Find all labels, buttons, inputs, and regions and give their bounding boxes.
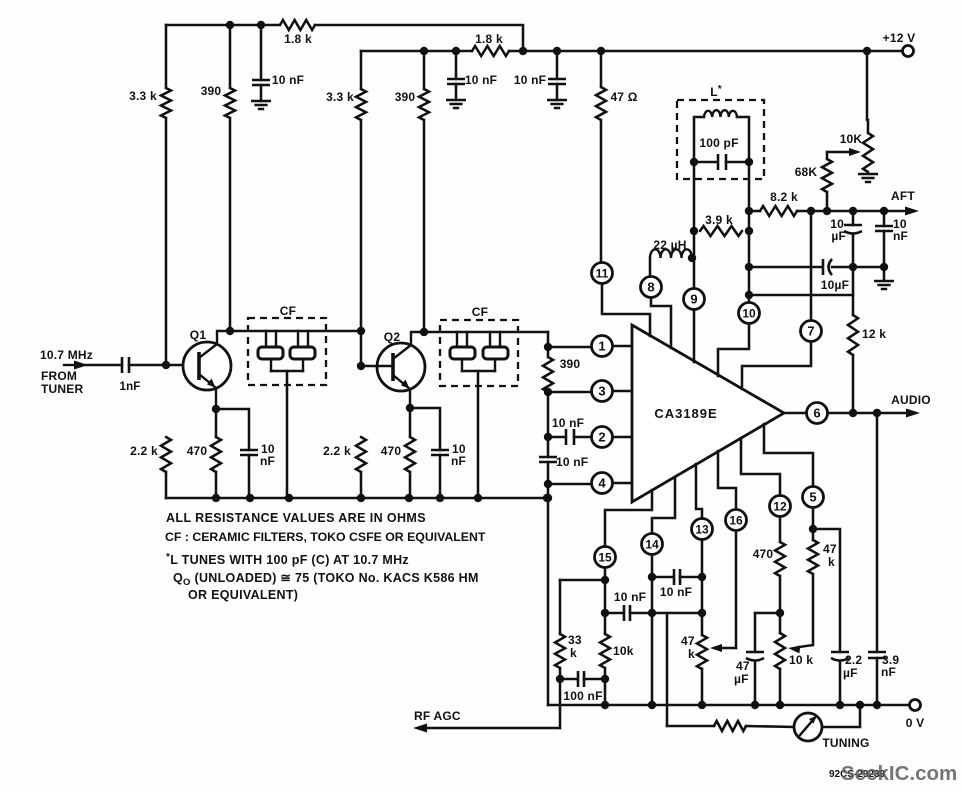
pin circle 15 (595, 547, 616, 568)
wire 47k pin5 down to wiper (812, 574, 815, 645)
junction ground rail / CF2 stem (474, 494, 482, 502)
pin circle 2 (592, 427, 613, 448)
junction column 548 / stage ground rail (544, 494, 552, 502)
svg-text:6: 6 (813, 406, 820, 421)
resistor R 3.3k second (356, 89, 366, 120)
junction 3.9k left end (690, 227, 698, 235)
junction node pin4 (544, 480, 552, 488)
wire 33k node down to RF AGC line (559, 679, 562, 728)
ground below 10nF third (547, 100, 567, 108)
resistor R 10k pot (pin 12) (775, 633, 785, 669)
dashed box CF first (248, 318, 326, 385)
svg-text:9: 9 (690, 292, 697, 307)
wire 12k to audio line (852, 355, 855, 413)
wire apex to pin 6 (784, 412, 806, 415)
svg-text:RF AGC: RF AGC (414, 709, 461, 723)
wire Q1 emitter to 10nF branch (216, 409, 249, 450)
svg-text:2.2 k: 2.2 k (323, 444, 351, 458)
wire CF1 common stem to ground rail (286, 371, 289, 498)
wire 390 column upper (x=230) (229, 25, 232, 88)
svg-text:2.2 k: 2.2 k (130, 444, 158, 458)
wire 10nF link left lead (605, 612, 623, 615)
resistor R 390 third (pin1-pin3) (543, 357, 553, 392)
wire column 548 pin3 to pin2 node (547, 392, 550, 437)
pin circle 3 (592, 381, 613, 402)
svg-text:10 nF: 10 nF (614, 590, 646, 604)
wire Q1 collector node to CF1 and to Q2 base column (y=331) (230, 330, 361, 333)
resistor R 10K pot (tuning meter adj) (863, 133, 873, 172)
svg-text:100 nF: 100 nF (563, 689, 602, 703)
resistor R 470 third (pin 12) (775, 542, 785, 576)
resistor R 33k (555, 634, 565, 668)
svg-text:0 V: 0 V (906, 716, 925, 730)
wire 10nF link right lead (630, 612, 652, 615)
wire 10nF 14-13 right lead (680, 576, 702, 579)
junction audio / 12k (849, 409, 857, 417)
wire 10uF column upper (852, 211, 855, 225)
wire 390-2 column to Q2 collector node (423, 120, 426, 332)
svg-text:1nF: 1nF (119, 381, 140, 393)
svg-text:15: 15 (598, 550, 612, 564)
wire 100pF left lead (694, 161, 717, 164)
wire pin 15 from triangle bottom edge (605, 490, 652, 546)
junction node Q1 collector / 390 (226, 327, 234, 335)
AFT output arrow (797, 207, 919, 216)
svg-text:nF: nF (451, 454, 466, 468)
svg-text:*L TUNES WITH 100 pF (C) AT 10: *L TUNES WITH 100 pF (C) AT 10.7 MHz (166, 552, 409, 567)
junction column 853 / 10uF wire (849, 263, 857, 271)
capacitor C 10nF third (rail B bypass) (548, 79, 566, 84)
svg-text:68K: 68K (795, 165, 818, 179)
pin circle 5 (803, 487, 824, 508)
resistor R 8.2k (760, 206, 797, 216)
wire 390-2 column upper (x=424) (423, 51, 426, 89)
wire 10nF AFT column lower (883, 231, 886, 280)
resistor R 12k (848, 315, 858, 355)
wire Q1 bypass cap to ground rail (248, 455, 251, 498)
resistor R 2.2k first (x=166) (161, 437, 171, 472)
svg-text:470: 470 (753, 547, 774, 561)
junction rail A / 390 column (226, 21, 234, 29)
wire 33k bottom (559, 668, 562, 679)
wire pin 9 to triangle top edge (693, 310, 696, 362)
svg-text:k: k (688, 647, 695, 661)
junction ground rail / input column (543, 494, 551, 502)
ceramic filter CF1 element A (258, 331, 283, 371)
pin circle 1 (592, 336, 613, 357)
resistor R 10k (pin 15) (600, 634, 610, 668)
svg-text:4: 4 (598, 476, 606, 491)
svg-text:47 Ω: 47 Ω (610, 90, 637, 104)
wire pin 11 to triangle top edge (602, 284, 650, 336)
junction pin13 column / 10nF link 14-13 (698, 573, 706, 581)
wire pin 16 from triangle bottom edge (718, 451, 736, 509)
svg-text:CF: CF (280, 304, 296, 318)
wire pin 5 from triangle bottom edge (764, 424, 813, 486)
svg-text:22 µH: 22 µH (653, 238, 686, 252)
terminal +12V (903, 46, 914, 57)
junction LC right node (745, 158, 753, 166)
wire 10nF-2 column (455, 51, 458, 79)
svg-text:AFT: AFT (891, 189, 915, 203)
capacitor C 10nF series to pin 2 (566, 429, 574, 445)
wire 1nF to Q1 base (129, 364, 199, 367)
wire 47uF link (y=613) (755, 612, 780, 615)
junction node Q2 collector / 390-2 (420, 328, 428, 336)
junction bottom rail / 2.2uF (836, 701, 844, 709)
wire 100nF leads (560, 678, 577, 681)
svg-text:10 nF: 10 nF (556, 455, 588, 469)
svg-text:k: k (828, 555, 835, 569)
dashed box CF second (440, 320, 518, 386)
svg-text:1: 1 (598, 339, 605, 354)
junction 10k bottom / 100nF (601, 675, 609, 683)
junction pin14 column / 10nF link 14-13 (648, 573, 656, 581)
svg-text:µF: µF (831, 229, 846, 243)
wire Q1 emitter to 470 (215, 409, 218, 437)
wire Q2 collector node to CF2 and IC input column (y=332) (424, 331, 548, 334)
junction rail B / 10nF-2 column (452, 47, 460, 55)
wire pin 5 column to 47k (812, 508, 815, 540)
pin 2 wire circle to triangle (613, 436, 632, 439)
svg-text:AUDIO: AUDIO (891, 393, 931, 407)
wire 2.2k first to ground rail (165, 472, 168, 498)
capacitor C 100nF (578, 671, 584, 687)
svg-text:10 k: 10 k (789, 653, 813, 667)
capacitor C 10nF link 15-14 (624, 605, 630, 621)
wire 10nF AFT column upper (883, 211, 886, 226)
wire pin 13 from triangle bottom edge (696, 464, 702, 518)
wire bottom rail 0V (y=705) (548, 704, 909, 707)
junction pin12 column / 47uF link (776, 609, 784, 617)
dashed box tuned circuit L (677, 100, 764, 179)
junction bottom rail / tuning meter (856, 701, 864, 709)
wiper arrow from 68K into 10K pot (827, 148, 861, 156)
wire pin 7 to triangle top edge (742, 342, 811, 389)
AUDIO output arrow (828, 409, 920, 418)
svg-text:12 k: 12 k (862, 327, 886, 341)
junction bottom rail / 3.9nF (873, 701, 881, 709)
capacitor C 10nF first (rail A bypass) (252, 80, 270, 85)
wire LC loop left (694, 117, 704, 162)
wire tuning tap column (x=667) (666, 613, 669, 726)
svg-text:47: 47 (736, 659, 750, 673)
inductor L tuning coil (704, 110, 737, 117)
svg-text:nF: nF (893, 229, 908, 243)
ground below 10nF first (251, 101, 271, 109)
junction node pin3 (544, 388, 552, 396)
pin 1 wire circle to triangle (613, 345, 632, 348)
resistor R 1.8k second (in rail B) (472, 46, 509, 56)
svg-text:µF: µF (734, 672, 749, 686)
svg-text:10K: 10K (840, 132, 863, 146)
capacitor C 10nF second (rail B bypass) (447, 79, 465, 84)
capacitor C 1nF input coupling (122, 357, 129, 373)
wire 10nF-3 column (556, 51, 559, 79)
wire 10uF column lower to 12k column (852, 234, 855, 315)
wire branch to 2.2uF column (813, 529, 840, 652)
svg-text:10 nF: 10 nF (660, 585, 692, 599)
capacitor C 3.9nF (868, 652, 886, 658)
wire 47uF column (754, 613, 757, 652)
wire pin 1 lead (548, 346, 591, 349)
wire meter to bottom rail (822, 705, 860, 727)
junction bottom rail / 47k pot (698, 701, 706, 709)
svg-text:390: 390 (560, 357, 581, 371)
svg-text:3: 3 (598, 384, 605, 399)
inductor L 22uH (650, 249, 692, 258)
junction column 749 / AFT rail (745, 207, 753, 215)
resistor R 390 first (225, 88, 235, 118)
wire 100nF right lead (584, 678, 605, 681)
junction ground rail / 10nF Q1 (246, 494, 254, 502)
wire 3.9nF to rail (876, 658, 879, 705)
svg-text:k: k (570, 646, 577, 660)
junction column 884 / 10uF wire (880, 263, 888, 271)
wire 10k pot to rail (779, 669, 782, 705)
wire 10uF horizontal link right (832, 266, 884, 269)
capacitor C 10nF Q1 emitter bypass (240, 450, 258, 455)
transistor Q2 (377, 332, 425, 408)
svg-text:47: 47 (681, 634, 695, 648)
junction bottom rail / 10k pin15 (601, 701, 609, 709)
capacitor C 10uF horizontal (polarized) (823, 259, 832, 275)
wire 3.3k column to Q1 base node (165, 118, 168, 365)
ground below 10nF second (446, 100, 466, 108)
svg-text:ALL RESISTANCE VALUES ARE IN O: ALL RESISTANCE VALUES ARE IN OHMS (166, 511, 426, 525)
transistor Q1 (183, 331, 231, 409)
svg-text:2.2: 2.2 (845, 653, 862, 667)
wire top rail A (first stage supply, y=25) (166, 24, 280, 27)
junction rail B / 10nF-3 column (553, 47, 561, 55)
junction ground rail / 2.2k-2 (357, 494, 365, 502)
resistor R 3.9k (700, 226, 742, 236)
junction pin14 column / 10nF link (648, 609, 656, 617)
wire 470 first to ground rail (215, 472, 218, 498)
wire column 548 down to bottom rail (547, 484, 550, 705)
wire 10nF-1 column (260, 25, 263, 80)
wire CF2 common stem to ground rail (477, 371, 480, 498)
svg-text:47: 47 (823, 542, 837, 556)
wire IC input column x=548 (547, 332, 550, 357)
junction rail B / 390-2 column (420, 47, 428, 55)
pin circle 14 (642, 534, 663, 555)
wire 3.3k column upper (x=166) (165, 25, 168, 88)
op-amp IC U1 CA3189E triangle (632, 325, 784, 502)
resistor R 3.3k first (161, 88, 171, 118)
svg-text:+12 V: +12 V (883, 31, 916, 45)
svg-text:nF: nF (260, 454, 275, 468)
wire pin 4 lead (548, 483, 591, 486)
resistor R 470 first (Q1 emitter) (211, 437, 221, 472)
junction bottom rail / pin14 col (648, 701, 656, 709)
svg-text:12: 12 (773, 499, 787, 513)
capacitor C 2.2uF (polarized) (831, 652, 849, 661)
wire column 548 shunt cap to pin4 node (547, 462, 550, 484)
wire 68K top lead (826, 152, 829, 159)
junction rail B / rail A feed (519, 47, 527, 55)
svg-text:3.9 k: 3.9 k (705, 213, 733, 227)
wire branch to 33k (560, 579, 605, 582)
capacitor C 10nF link 14-13 (674, 569, 680, 585)
svg-text:7: 7 (807, 324, 814, 339)
wire 100pF right lead (726, 161, 749, 164)
junction pin5 column / 2.2uF branch (809, 525, 817, 533)
svg-text:14: 14 (645, 537, 659, 551)
pin circle 7 (801, 321, 822, 342)
wire tuning line left segment (667, 725, 714, 728)
svg-text:TUNING: TUNING (822, 736, 869, 750)
wire 47k pot to rail (701, 669, 704, 705)
svg-text:470: 470 (381, 444, 402, 458)
svg-text:nF: nF (881, 665, 896, 679)
resistor R 390 second (419, 89, 429, 120)
junction bottom rail / 10k pot (776, 701, 784, 709)
wire pin 14 from triangle bottom edge (652, 477, 675, 533)
pin circle 6 (807, 403, 828, 424)
wire 68K bottom lead to AFT rail (826, 192, 829, 211)
wire CF1 common leg (271, 370, 303, 373)
ground below 10K pot (858, 174, 878, 182)
wire pin 12 column to 470 (779, 517, 782, 542)
input arrow 10.7 MHz from tuner (64, 361, 88, 370)
wire 47uF to rail (754, 661, 757, 705)
wire pin 15 column down (604, 568, 607, 634)
wire pin 2 lead (574, 436, 591, 439)
RF AGC arrow (413, 724, 560, 733)
meter M tuning indicator (794, 713, 822, 741)
svg-text:OR EQUIVALENT): OR EQUIVALENT) (188, 588, 298, 602)
wire pin 7 column from AFT rail (810, 211, 813, 320)
svg-text:µF: µF (843, 666, 858, 680)
junction rail A / 10nF column (257, 21, 265, 29)
svg-text:10 nF: 10 nF (514, 73, 546, 87)
wire +12V to 10K pot (867, 51, 868, 133)
svg-text:16: 16 (729, 513, 743, 527)
svg-text:2: 2 (598, 430, 605, 445)
junction rail B / 10K pot column (863, 47, 871, 55)
wire input to 1nF (86, 364, 120, 367)
pin 3 wire circle to triangle (613, 390, 632, 393)
junction audio / 3.9nF column (873, 409, 881, 417)
ceramic filter CF1 element B (290, 331, 315, 371)
wire pin 8 to triangle top edge (651, 298, 671, 348)
svg-text:CF : CERAMIC FILTERS, TOKO CSF: CF : CERAMIC FILTERS, TOKO CSFE OR EQUIV… (165, 530, 486, 544)
wire 33k column upper (559, 580, 562, 634)
pin circle 8 (641, 277, 662, 298)
junction AFT rail / 68K (823, 207, 831, 215)
wire top rail B left part (y=51) (361, 50, 472, 53)
wire rail A continues to corner and down to rail B (315, 25, 523, 51)
junction 22uH right end / L-box column (688, 254, 696, 262)
wire pin 3 lead (548, 391, 591, 394)
svg-text:13: 13 (695, 522, 709, 536)
wire pin10 node to 12k column (y=295) (749, 294, 853, 297)
svg-text:10 nF: 10 nF (552, 416, 584, 430)
wire audio down to 3.9nF (876, 413, 879, 652)
svg-text:CA3189E: CA3189E (654, 406, 717, 421)
junction column 749 / 12k wire (745, 291, 753, 299)
svg-text:Q2: Q2 (384, 330, 401, 344)
wire 10k bottom to rail (604, 668, 607, 705)
resistor R 47k pot (pin 13) (697, 635, 707, 669)
pin circle 12 (770, 496, 791, 517)
svg-text:SeekIC.com: SeekIC.com (841, 762, 957, 785)
resistor R 1.8k first (in rail A) (280, 20, 315, 30)
junction node Q1 base / 3.3k (162, 361, 170, 369)
svg-text:TUNER: TUNER (41, 382, 83, 396)
wire 47ohm column upper (600, 51, 603, 87)
wire tuning line to meter (746, 726, 794, 727)
ground below AFT 10nF (874, 281, 894, 289)
svg-text:100 pF: 100 pF (699, 136, 738, 150)
wire 10nF-3 to ground (556, 84, 559, 100)
svg-text:5: 5 (809, 490, 816, 505)
svg-text:3.3 k: 3.3 k (129, 89, 157, 103)
wire top rail B right part (y=51) (509, 50, 902, 53)
wire 10uF horizontal link (y=267) (749, 266, 822, 269)
junction node Q2 emitter (406, 404, 414, 412)
svg-text:10 nF: 10 nF (272, 73, 304, 87)
wire 10nF 14-13 left lead (652, 576, 673, 579)
junction LC left node (690, 158, 698, 166)
pin circle 13 (692, 519, 713, 540)
junction 33k bottom / 100nF (556, 675, 564, 683)
wire 3.3k-2 column upper (x=361) (360, 51, 363, 89)
wiper arrow pin5 into 10k pot (788, 645, 813, 653)
wire pin 14 column down (651, 555, 654, 705)
wire L-box right column down to pin 10 (748, 162, 751, 303)
resistor R 47 ohm (596, 87, 606, 120)
wire 3.3k-2 column to Q2 base node (360, 120, 363, 366)
svg-text:1.8 k: 1.8 k (284, 32, 312, 46)
svg-text:390: 390 (395, 90, 416, 104)
resistor R 470 second (Q2 emitter) (405, 437, 415, 472)
wire 10nF-1 to ground (260, 85, 263, 101)
wire Q2 emitter to 470-2 (409, 408, 412, 437)
junction ground rail / CF1 stem (285, 494, 293, 502)
resistor R 47k (pin 5) (808, 540, 818, 574)
wire 22uH left end to pin 8 (649, 258, 652, 276)
ceramic filter CF2 element B (483, 332, 508, 371)
wire pin 2 series cap leads (548, 436, 565, 439)
wire AFT rail left segment (749, 210, 760, 213)
resistor R 2.2k second (x=361) (356, 437, 366, 472)
svg-text:470: 470 (187, 444, 208, 458)
svg-text:10.7 MHz: 10.7 MHz (40, 348, 93, 362)
capacitor C 10nF Q2 emitter bypass (431, 450, 449, 455)
wire CF2 common leg (462, 370, 495, 373)
svg-text:10k: 10k (613, 644, 634, 658)
svg-text:3.3 k: 3.3 k (326, 90, 354, 104)
svg-text:11: 11 (596, 266, 609, 280)
junction rail B / 47ohm column (597, 47, 605, 55)
svg-text:1.8 k: 1.8 k (475, 32, 503, 46)
svg-text:CF: CF (472, 305, 488, 319)
pin circle 16 (726, 510, 747, 531)
junction node pin1 / 390 (544, 343, 552, 351)
resistor R tuning series (714, 721, 746, 731)
wire 470 third to node (779, 576, 782, 633)
pin circle 9 (684, 289, 705, 310)
wire Q2 emitter to 10nF branch (410, 408, 440, 450)
junction ground rail / 470-1 (212, 494, 220, 502)
wire pin 12 from triangle bottom edge (741, 438, 780, 495)
wire 10nF-2 to ground (455, 84, 458, 100)
svg-text:8.2 k: 8.2 k (770, 190, 798, 204)
svg-text:10 nF: 10 nF (465, 73, 497, 87)
svg-text:8: 8 (647, 280, 654, 295)
